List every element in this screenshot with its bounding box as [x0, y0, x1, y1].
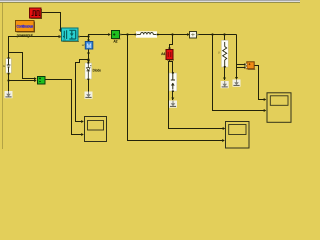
svg-text:Diode: Diode	[93, 69, 102, 73]
svg-text:powergui: powergui	[17, 32, 33, 37]
ground G4 arrowhead on wire	[223, 78, 226, 81]
wire: A1 output to scope1 lower input	[45, 80, 82, 135]
voltage sensor V1 (orange)	[246, 62, 256, 70]
node: rail junction to scope2 lower	[211, 33, 213, 35]
pulse generator P1	[30, 8, 43, 19]
ground G4	[221, 81, 229, 88]
orange sensor minus arrowhead	[244, 66, 246, 69]
A2 right port nub	[120, 34, 122, 36]
battery B1	[169, 72, 177, 92]
svg-text:M: M	[87, 44, 92, 50]
A4 top arrowhead	[168, 48, 171, 50]
wire: rail-end stub to voltage sensor plus	[237, 64, 245, 66]
scope2 lower arrowhead	[264, 109, 267, 112]
MOSFET input arrowhead	[59, 35, 62, 38]
canvas background	[0, 0, 300, 149]
current measurement A2	[112, 31, 121, 40]
wire: M output down to junction above diode	[88, 49, 90, 61]
node: rail junction to load resistor	[223, 33, 225, 35]
ground G1	[5, 91, 13, 98]
M input arrowhead	[87, 40, 90, 42]
A2 input arrowhead	[108, 33, 111, 36]
scope1 upper arrowhead	[81, 120, 84, 123]
ground G3 arrowhead on wire	[171, 98, 174, 101]
left page border line	[2, 3, 3, 149]
wire: orange sensor output to scope2 upper input	[255, 66, 265, 100]
A1 plus arrowhead	[34, 77, 36, 80]
ground G5	[233, 80, 241, 87]
scope2	[267, 93, 291, 123]
top window band	[0, 0, 300, 1]
wire: battery bottom to ground G3	[172, 91, 174, 100]
diode top arrowhead	[87, 60, 90, 62]
ground G2	[85, 92, 93, 99]
node: resistor top port dot	[223, 39, 225, 41]
ammeter A4	[166, 50, 174, 61]
gate arrowhead	[59, 30, 62, 33]
MOSFET right port nub	[78, 36, 80, 38]
wire: MOSFET source out to node then A2	[80, 35, 109, 37]
wire: branch from diode-top junction to scope1 upper input	[76, 60, 89, 122]
scope1 lower arrowhead	[81, 133, 84, 136]
node: rail junction to A4	[171, 33, 173, 35]
orange sensor plus arrowhead	[244, 63, 246, 66]
wire: pulse generator to MOSFET gate	[41, 13, 61, 30]
wire: resistor bottom to ground G4	[224, 67, 226, 80]
svg-text:m: m	[64, 39, 66, 42]
series block input arrowhead	[187, 33, 189, 36]
node: junction above diode	[87, 58, 89, 60]
node: junction between A2 and inductor	[126, 33, 128, 35]
measurement block M	[85, 42, 93, 50]
wire: junction down to scope3 lower input	[128, 35, 223, 141]
ground G5 arrowhead on rail-end wire	[235, 77, 238, 80]
voltage measurement A1	[38, 77, 46, 85]
powergui block	[16, 21, 36, 33]
node: junction at source bottom wire	[7, 79, 9, 81]
A1 minus arrowhead	[34, 79, 36, 82]
wire: diode bottom to ground G2	[88, 79, 90, 92]
scope3 upper arrowhead	[223, 127, 226, 130]
DC voltage source E1	[6, 57, 12, 74]
svg-text:Continuous: Continuous	[17, 24, 34, 29]
wire: DC source bottom to ground G1	[8, 73, 10, 91]
scope3	[226, 122, 250, 149]
MOSFET left port nub	[60, 36, 62, 38]
scope1	[85, 117, 107, 142]
wire: rail junction down right to scope2 lower input	[213, 35, 265, 111]
MOSFET Q1	[62, 28, 80, 42]
wire: junction down to resistor top	[224, 35, 226, 40]
wire: A4 bottom split to battery and to scope3 upper	[169, 59, 224, 129]
wire: A2 output to inductor	[121, 34, 136, 36]
scope3 lower arrowhead	[222, 139, 225, 142]
S1 right port nub	[197, 34, 199, 36]
scope2 upper arrowhead	[264, 98, 267, 101]
svg-text:A2: A2	[113, 40, 117, 44]
svg-text:A4: A4	[161, 52, 165, 56]
wire: inductor output rail to far corner	[158, 35, 237, 79]
wire: source bottom node to A1 minus input	[9, 80, 35, 82]
load resistor R1	[221, 40, 228, 67]
svg-text:E: E	[3, 64, 5, 68]
wire: rail-end stub to voltage sensor minus	[237, 67, 245, 69]
arrowhead on M output wire	[87, 53, 90, 56]
ground G3	[169, 101, 177, 108]
wire: left rail from node to MOSFET drain	[9, 37, 60, 59]
wire: junction down into measurement block M	[88, 37, 90, 40]
wire: rail down to ammeter A4	[170, 35, 173, 49]
svg-text:U: U	[218, 51, 220, 55]
wire: branch to voltage measurement A1 plus input	[9, 53, 35, 79]
series measurement block S1 on rail	[190, 32, 197, 39]
inductor L1	[135, 31, 159, 37]
diode D1	[85, 62, 92, 80]
node: MOSFET output junction	[87, 35, 89, 37]
